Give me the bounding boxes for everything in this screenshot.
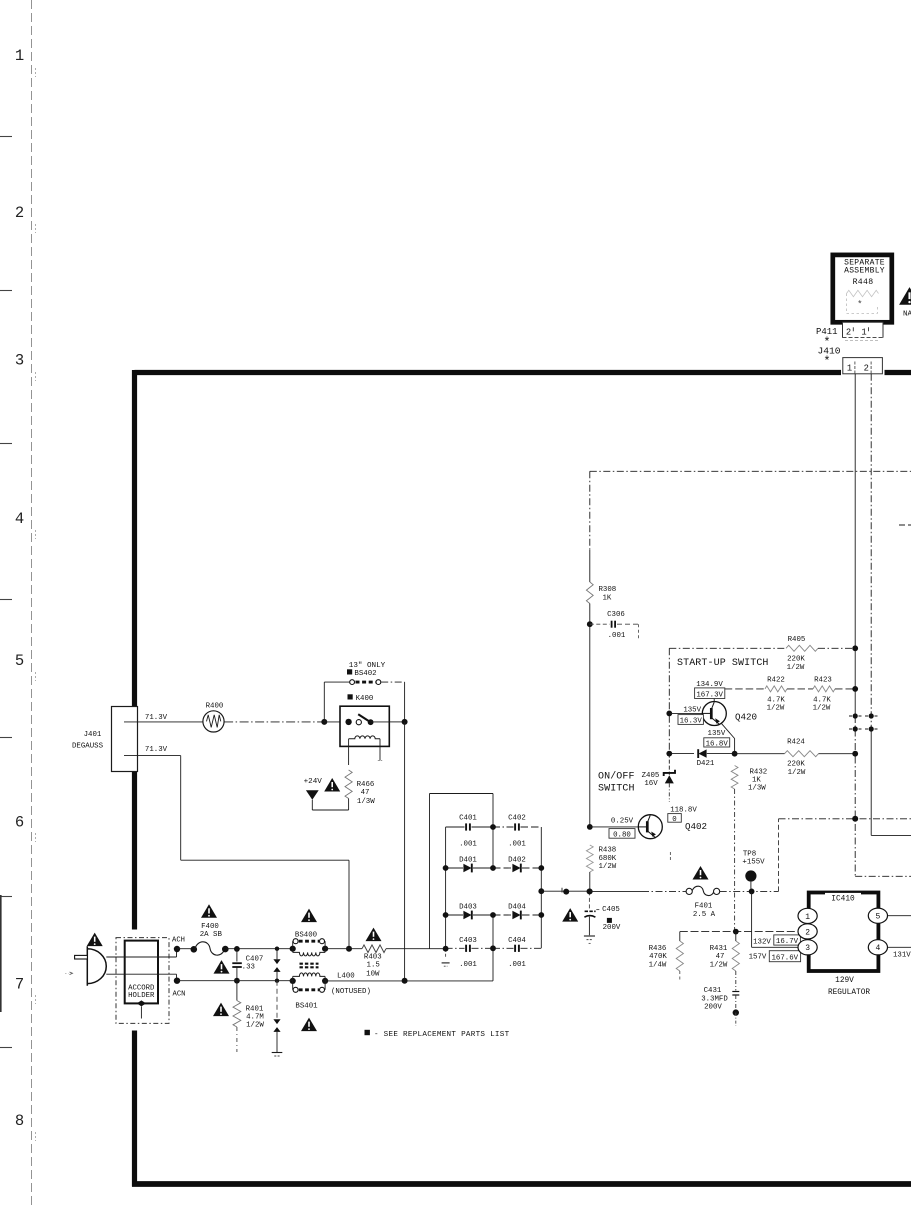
svg-text:J401: J401	[84, 731, 102, 739]
wire to rail junction	[778, 819, 780, 892]
capacitor C407 .33	[236, 949, 238, 962]
ground (bridge)	[445, 949, 447, 958]
svg-text:.33: .33	[242, 964, 255, 972]
svg-text:.001: .001	[508, 841, 526, 849]
wire stub right edge	[899, 524, 911, 526]
bridge nodes	[490, 824, 496, 830]
IC410 pins	[798, 908, 817, 923]
transistor Q402	[638, 815, 662, 839]
svg-text:REGULATOR: REGULATOR	[828, 989, 870, 997]
svg-text:C401: C401	[459, 815, 477, 823]
svg-text:*: *	[823, 355, 830, 369]
connector P411	[843, 322, 884, 337]
wire plug neutral	[106, 973, 176, 975]
svg-text:R448: R448	[853, 278, 874, 287]
wire R400 to relay	[224, 721, 324, 723]
svg-text:C407: C407	[246, 955, 264, 963]
svg-text:+24V: +24V	[304, 778, 323, 786]
svg-text:4.7K: 4.7K	[767, 696, 785, 704]
svg-text:C306: C306	[607, 611, 625, 619]
separate assembly box R448	[833, 255, 892, 322]
svg-text:- SEE REPLACEMENT PARTS LIST: - SEE REPLACEMENT PARTS LIST	[374, 1031, 510, 1039]
transistor Q420	[702, 702, 726, 726]
svg-text:7: 7	[15, 976, 24, 994]
resistor R405 220K 1/2W	[786, 645, 818, 651]
wire top boundary dash-dot	[590, 470, 911, 472]
svg-text:1/2W: 1/2W	[767, 705, 785, 713]
replacement parts note	[365, 1030, 370, 1035]
svg-text:6: 6	[15, 814, 24, 832]
svg-text:167.6V: 167.6V	[771, 955, 798, 963]
svg-text:ASSEMBLY: ASSEMBLY	[844, 267, 885, 276]
wire Q420 collector	[713, 689, 715, 702]
svg-text:200V: 200V	[603, 924, 621, 932]
svg-text:F401: F401	[695, 903, 713, 911]
svg-text:C431: C431	[704, 987, 722, 995]
node degauss left	[321, 719, 327, 725]
svg-text:16.7V: 16.7V	[776, 938, 799, 946]
svg-text:D404: D404	[508, 904, 526, 912]
svg-text:3: 3	[805, 944, 810, 953]
wire R436/R431 to pin2	[680, 931, 798, 933]
wire ACH	[177, 948, 193, 950]
wire to IC410 pin3	[751, 891, 753, 947]
svg-text:D403: D403	[459, 904, 477, 912]
core	[300, 963, 319, 965]
svg-text:SWITCH: SWITCH	[598, 783, 635, 794]
svg-text:220K: 220K	[787, 656, 805, 664]
svg-text:118.8V: 118.8V	[670, 806, 697, 814]
svg-text:1: 1	[847, 363, 852, 373]
svg-text:1.5: 1.5	[367, 962, 380, 970]
IC410 129V regulator	[809, 893, 879, 972]
svg-text:131V: 131V	[893, 952, 911, 960]
svg-text:R400: R400	[206, 703, 224, 711]
node D421 anode rail	[666, 751, 672, 757]
svg-text:16.8V: 16.8V	[706, 740, 729, 748]
resistor R432 1K 1/3W	[731, 766, 738, 790]
svg-text:R432: R432	[750, 768, 768, 776]
svg-text:135V: 135V	[683, 706, 701, 714]
inductor winding top	[293, 952, 325, 956]
svg-text:ACH: ACH	[172, 937, 185, 945]
AC plug	[87, 946, 106, 986]
svg-text:*: *	[857, 300, 862, 310]
svg-text:1: 1	[805, 913, 810, 922]
fuse F401 2.5A	[686, 888, 692, 894]
warning triangle (plug)	[87, 933, 103, 947]
svg-text:1/2W: 1/2W	[246, 1021, 264, 1029]
svg-text:NA: NA	[903, 311, 911, 319]
warning triangle (R466)	[324, 778, 340, 792]
resistor R436 470K 1/4W	[679, 932, 681, 941]
node Q402 base	[587, 824, 593, 830]
svg-text:IC410: IC410	[831, 896, 855, 904]
svg-text:8: 8	[15, 1112, 24, 1130]
resistor R401 4.7M 1/2W	[236, 981, 238, 1001]
svg-text:4: 4	[15, 510, 24, 528]
warning triangle (C405)	[562, 908, 578, 922]
wire K400 return to ACN	[404, 722, 406, 981]
svg-text:R403: R403	[364, 953, 382, 961]
svg-text:+155V: +155V	[742, 859, 765, 867]
svg-text:C402: C402	[508, 815, 526, 823]
svg-text:1/4W: 1/4W	[649, 961, 667, 969]
svg-text:.001: .001	[508, 961, 526, 969]
wire degauss top 71.3V	[124, 721, 203, 723]
svg-text:3: 3	[15, 352, 24, 370]
resistor R422 4.7K 1/2W	[765, 686, 787, 692]
resistor R403 1.5 10W	[325, 948, 362, 950]
capacitor C431 3.3MFD 200V	[735, 971, 737, 991]
svg-text:(NOTUSED): (NOTUSED)	[331, 988, 371, 996]
node K400 return on ACN	[402, 978, 408, 984]
warning triangle (F401)	[693, 866, 709, 880]
wire ACN	[177, 980, 293, 982]
svg-text:C405: C405	[602, 906, 620, 914]
wire degauss bottom 71.3V	[124, 755, 181, 757]
+24V supply	[306, 790, 319, 800]
svg-text:R424: R424	[787, 738, 805, 746]
resistor R308 1K	[586, 582, 593, 604]
svg-text:R401: R401	[246, 1005, 264, 1013]
svg-text:470K: 470K	[649, 953, 667, 961]
svg-text:2A SB: 2A SB	[200, 931, 223, 939]
svg-text:Q420: Q420	[735, 712, 757, 723]
svg-text:0.25V: 0.25V	[611, 818, 634, 826]
svg-text:1: 1	[861, 328, 866, 338]
svg-text:3.3MFD: 3.3MFD	[701, 995, 728, 1003]
node +155V on rail	[852, 816, 858, 822]
wire on/off net	[668, 648, 670, 753]
svg-text:2.5 A: 2.5 A	[693, 911, 716, 919]
node C407 top	[234, 946, 240, 952]
svg-text:13" ONLY: 13" ONLY	[349, 662, 386, 670]
node Q420 base	[666, 711, 672, 717]
svg-text:135V: 135V	[708, 730, 726, 738]
svg-text:2: 2	[805, 928, 810, 937]
frame border	[132, 370, 911, 1187]
resistor R466 47 1/3W	[345, 770, 352, 799]
svg-text:1/2W: 1/2W	[813, 705, 831, 713]
svg-text:D401: D401	[459, 857, 477, 865]
svg-text:Z405: Z405	[642, 772, 660, 780]
svg-text:HOLDER: HOLDER	[128, 992, 155, 1000]
capacitor C405 200V	[588, 891, 590, 910]
wire pin5 out	[888, 915, 911, 917]
svg-text:START-UP SWITCH: START-UP SWITCH	[677, 658, 769, 669]
ground (C405)	[584, 935, 595, 937]
fusible link BS401	[290, 978, 296, 984]
wire plug hot	[106, 956, 176, 958]
inductor winding bottom	[293, 973, 325, 977]
svg-text:680K: 680K	[599, 855, 617, 863]
diode D421	[669, 753, 694, 755]
connector J401 DEGAUSS	[112, 707, 138, 772]
ground (spark gap)	[272, 1052, 283, 1054]
node D421/R432	[732, 751, 738, 757]
svg-text:0.80: 0.80	[613, 831, 631, 839]
svg-text:132V: 132V	[753, 938, 771, 946]
resistor R424 220K 1/2W	[735, 753, 785, 755]
svg-text:200V: 200V	[704, 1004, 722, 1012]
resistor R438 680K 1/2W	[586, 845, 593, 872]
relay K400	[348, 694, 353, 699]
svg-text:Q402: Q402	[685, 821, 707, 832]
wire bridge output	[541, 890, 589, 892]
svg-text:R466: R466	[357, 781, 375, 789]
svg-text:.001: .001	[608, 632, 626, 640]
wire Q420 emitter	[721, 723, 734, 738]
bridge right bus	[540, 827, 542, 948]
warning triangle (R401)	[213, 1003, 229, 1017]
svg-text:R308: R308	[599, 586, 617, 594]
svg-text:1/2W: 1/2W	[788, 769, 806, 777]
node C306	[587, 621, 593, 627]
accord holder dashed box	[116, 938, 169, 1024]
svg-text:5: 5	[875, 913, 880, 922]
svg-text:DEGAUSS: DEGAUSS	[72, 743, 104, 751]
svg-text:0: 0	[672, 816, 676, 824]
svg-text:16.3V: 16.3V	[680, 718, 703, 726]
svg-text:R422: R422	[767, 676, 785, 684]
warning triangle (page edge)	[899, 287, 911, 305]
spark gap ACH-ACN	[275, 947, 279, 951]
svg-text:C404: C404	[508, 937, 526, 945]
svg-text:5: 5	[15, 652, 24, 670]
svg-text:ON/OFF: ON/OFF	[598, 770, 635, 782]
svg-text:10W: 10W	[366, 970, 380, 978]
svg-text:R436: R436	[649, 945, 667, 953]
svg-text:D421: D421	[697, 760, 715, 768]
wire pin4 out 131V	[888, 946, 911, 948]
resistor R431 47 1/2W	[732, 941, 739, 971]
bridge mid bus lower	[492, 915, 494, 981]
svg-text:1/3W: 1/3W	[748, 784, 766, 792]
svg-text:ACN: ACN	[173, 990, 186, 998]
node ticks on rails	[853, 713, 858, 718]
svg-text:.001: .001	[459, 841, 477, 849]
svg-text:L400: L400	[337, 973, 355, 981]
page margin column	[0, 0, 36, 1205]
svg-text:71.3V: 71.3V	[145, 714, 168, 722]
svg-text:2: 2	[864, 363, 869, 373]
resistor R423 4.7K 1/2W	[813, 686, 835, 692]
svg-text:71.3V: 71.3V	[145, 746, 168, 754]
svg-text:167.3V: 167.3V	[696, 691, 723, 699]
fusible link BS400	[301, 909, 317, 923]
svg-text:C403: C403	[459, 937, 477, 945]
svg-text:.001: .001	[459, 961, 477, 969]
svg-text:1/2W: 1/2W	[787, 664, 805, 672]
svg-text:4.7K: 4.7K	[813, 696, 831, 704]
svg-text:157V: 157V	[749, 954, 767, 962]
warning triangle (C407)	[214, 960, 230, 974]
wire start-up with R405	[669, 647, 786, 649]
svg-text:16V: 16V	[644, 780, 658, 788]
accord holder body	[125, 941, 158, 1004]
svg-text:129V: 129V	[835, 977, 854, 985]
svg-text:1: 1	[15, 47, 24, 65]
wire +155V	[590, 890, 642, 892]
node ACN	[174, 978, 180, 984]
wire J410 pin2 rail	[870, 374, 872, 729]
svg-text:220K: 220K	[787, 761, 805, 769]
wire R308 branch	[589, 471, 591, 550]
svg-text:1K: 1K	[603, 595, 612, 603]
node +155V raw	[587, 889, 593, 895]
svg-text:4: 4	[875, 944, 880, 953]
svg-text:R431: R431	[710, 945, 728, 953]
bridge left bus	[445, 827, 447, 949]
svg-text:R423: R423	[814, 676, 832, 684]
svg-text:47: 47	[716, 953, 725, 961]
wire ACH riser to bridge	[429, 794, 431, 949]
svg-text:2: 2	[15, 204, 24, 222]
warning triangle (F400)	[201, 904, 217, 918]
svg-text:K400: K400	[356, 695, 374, 703]
svg-text:1K: 1K	[752, 776, 761, 784]
svg-text:F400: F400	[201, 923, 219, 931]
svg-text:1/2W: 1/2W	[599, 863, 617, 871]
svg-text:BS402: BS402	[354, 670, 376, 678]
svg-text:4.7M: 4.7M	[246, 1013, 264, 1021]
svg-text:1/3W: 1/3W	[357, 798, 375, 806]
relay coil	[349, 736, 380, 739]
wire J410 pin1 rail	[854, 374, 856, 716]
svg-text:2: 2	[846, 328, 851, 338]
node degauss tap	[346, 946, 352, 952]
svg-text:1/2W: 1/2W	[710, 961, 728, 969]
svg-text:BS401: BS401	[295, 1002, 318, 1010]
svg-text:R438: R438	[599, 847, 617, 855]
node degauss right	[402, 719, 408, 725]
svg-text:R405: R405	[788, 636, 806, 644]
svg-text:BS400: BS400	[295, 932, 317, 940]
node R401 top	[234, 978, 240, 984]
capacitor C306 .001	[590, 623, 610, 625]
svg-text:TP8: TP8	[743, 851, 756, 859]
svg-text:47: 47	[361, 789, 370, 797]
spark gap ACN-ground	[276, 981, 278, 1020]
svg-text:D402: D402	[508, 857, 526, 865]
